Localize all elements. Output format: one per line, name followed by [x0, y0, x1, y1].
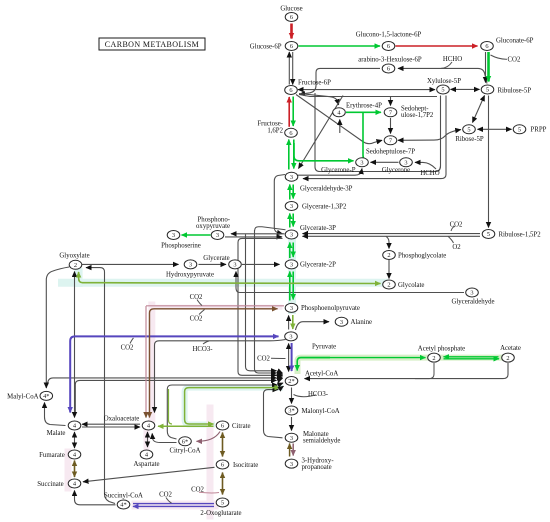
svg-text:CO2: CO2	[450, 222, 463, 229]
wire long vertical A (x245.5)	[246, 234, 277, 370]
svg-text:3: 3	[290, 305, 293, 312]
edge green glycerate3P-2P (down)	[292, 243, 294, 258]
node Glycerate	[229, 260, 242, 269]
wire rubisco line upper to glycerate-3P	[303, 233, 481, 235]
wire CO2 tick pdh	[271, 357, 286, 359]
wire isocitrate to succinate diagonal	[83, 467, 215, 482]
node Phosphoserine	[167, 231, 180, 240]
svg-text:6: 6	[221, 423, 224, 430]
svg-text:CO2: CO2	[191, 486, 204, 493]
edge CO2 tick idh	[199, 491, 219, 494]
wire fan arrow 2	[278, 374, 283, 376]
edge olive malonateSA-3HP (up)	[289, 444, 291, 457]
wire diagonal to glyceraldehyde-3P	[299, 96, 344, 169]
node Sedoheptulose-1,7P2	[384, 108, 397, 117]
node Phosphoglycolate	[383, 251, 396, 260]
wire malyl-CoA loop to malate	[45, 403, 66, 426]
wire glyoxylate to hydroxypyruvate	[82, 263, 179, 265]
edge pink vertical partner	[145, 306, 147, 413]
svg-text:CO2: CO2	[190, 294, 203, 301]
wire fan arrow 3	[278, 376, 283, 379]
svg-text:CARBON METABOLISM: CARBON METABOLISM	[105, 40, 199, 49]
edge black pyruvate-acetylCoA (up)	[288, 344, 290, 372]
wire fan arrow g1	[278, 383, 283, 385]
svg-text:Acetyl-CoA: Acetyl-CoA	[305, 370, 338, 377]
svg-text:Ribulose-5P: Ribulose-5P	[498, 87, 532, 94]
svg-text:3: 3	[290, 262, 293, 269]
node Erythrose-4P	[333, 108, 346, 117]
wire xylulose-5P to ribulose-5P	[451, 88, 480, 90]
wire phosphoglycolate to glycolate	[388, 260, 390, 279]
svg-text:Glucose-6P: Glucose-6P	[250, 43, 282, 50]
svg-text:4*: 4*	[120, 502, 126, 509]
wire alanine link	[296, 322, 330, 330]
node Glyoxylate	[69, 260, 82, 269]
svg-text:6: 6	[387, 66, 390, 73]
svg-text:arabino-3-Hexulose-6P: arabino-3-Hexulose-6P	[358, 56, 422, 63]
svg-text:Acetate: Acetate	[500, 345, 521, 352]
svg-text:Glycerate-2P: Glycerate-2P	[300, 262, 336, 269]
svg-text:Sedoheptulose-7P: Sedoheptulose-7P	[366, 149, 415, 156]
svg-text:HCO3-: HCO3-	[308, 391, 329, 398]
svg-text:6*: 6*	[182, 439, 188, 446]
edge olive citrate-isocitrate	[222, 433, 224, 457]
node Pyruvate	[285, 332, 298, 341]
wire ribose-5P to PRPP	[478, 128, 512, 130]
edge green 13P2-glycerate3P (up)	[289, 214, 291, 228]
wire diagonal F6P to sedoheptulose-7P	[296, 95, 382, 144]
node Sedoheptulose-7P	[384, 136, 397, 145]
node Glycerate-3P	[285, 230, 298, 239]
node Ribulose-5P	[481, 85, 494, 94]
node Malonate semialdehyde	[285, 433, 298, 442]
svg-text:propanoate: propanoate	[302, 464, 332, 471]
svg-text:3: 3	[172, 232, 175, 239]
band pink citrate column	[207, 408, 214, 516]
svg-text:2: 2	[74, 262, 77, 269]
wire fan arrow 4	[278, 378, 283, 380]
wire phosphono-oxypyruvate to glycerate-3P	[225, 236, 282, 238]
wire glyoxylate-malate vertical	[74, 272, 76, 418]
svg-text:Glucono-1,5-lactone-6P: Glucono-1,5-lactone-6P	[356, 31, 422, 38]
node Ribose-5P	[463, 125, 476, 134]
node Citrate	[216, 421, 229, 430]
edge ygreen PEP to pyruvate	[292, 315, 294, 329]
edge pink PEP line	[146, 305, 284, 307]
node Xylulose-5P	[437, 85, 450, 94]
svg-text:Malyl-CoA: Malyl-CoA	[7, 393, 38, 400]
wire glycerate-3P top-left stub	[255, 227, 286, 231]
wire citryl-CoA to acetyl-CoA	[167, 385, 277, 439]
wire gluconate-6P black partner down	[485, 52, 487, 83]
edge CO2 tick pepck lower	[199, 310, 205, 315]
node Hydroxypyruvate	[184, 260, 197, 269]
svg-text:Glycerate: Glycerate	[203, 255, 229, 262]
node Phosphono-oxypyruvate	[211, 231, 224, 240]
svg-text:Glucose: Glucose	[280, 6, 302, 13]
edge black PEP-pyruvate pair up	[288, 316, 290, 330]
wire malate-oxaloacetate upper	[82, 423, 140, 425]
svg-text:3: 3	[404, 160, 407, 167]
svg-text:Glycerone: Glycerone	[382, 167, 410, 174]
svg-text:CO2: CO2	[508, 56, 521, 63]
node Fumarate	[68, 450, 81, 459]
wire ribose-5P west curve to sedoheptulose-7P	[398, 130, 461, 141]
edge green G3P-glycerate13P2 (down)	[292, 185, 294, 199]
wire xylulose-5P loop left leg	[315, 93, 441, 172]
svg-text:6: 6	[221, 462, 224, 469]
svg-text:Glyoxylate: Glyoxylate	[59, 252, 89, 259]
wire acetate down to acetyl-CoA	[305, 363, 509, 379]
node Malate	[68, 421, 81, 430]
wire G3P bypass to glycerate-3P	[274, 175, 285, 234]
wire stub up into erythrose-4P	[339, 120, 341, 134]
edge red fructose-1,6P2 to fructose-6P	[288, 97, 290, 127]
svg-text:5: 5	[441, 87, 444, 94]
svg-text:Glycerone-P: Glycerone-P	[321, 167, 356, 174]
node Alanine	[335, 317, 348, 326]
node PRPP	[513, 125, 526, 134]
edge red gluconolactone to gluconate-6P	[396, 45, 478, 47]
edge green glucose-6P to gluconolactone	[299, 45, 381, 47]
edge brown oxaloacetate to PEP	[150, 309, 278, 413]
svg-text:Alanine: Alanine	[351, 319, 373, 326]
wire malate long horizontal to acetyl-CoA	[75, 380, 276, 414]
svg-text:6: 6	[289, 130, 292, 137]
edge green to glycerone-P	[294, 143, 354, 161]
node Glycerate-2P	[285, 260, 298, 269]
svg-text:Fumarate: Fumarate	[39, 452, 65, 459]
svg-text:CO2: CO2	[190, 316, 203, 323]
node Glycerone	[400, 158, 413, 167]
node Malyl-CoA	[40, 391, 53, 400]
node Citryl-CoA	[179, 437, 192, 446]
svg-text:2: 2	[387, 282, 390, 289]
node Acetyl-CoA	[285, 377, 298, 386]
svg-text:Phosphoenolpyruvate: Phosphoenolpyruvate	[301, 305, 360, 312]
edge brown arrow2 into oxaloacetate	[149, 414, 151, 418]
edge green F16P2-G3P right (arrow down)	[293, 140, 295, 169]
edge green acetylphosphate-acetate (left)	[444, 356, 499, 358]
band cyan acetylCoA-citrate route	[185, 388, 280, 425]
wire sedoheptulose-1,7P2 to sedoheptulose-7P	[390, 118, 392, 134]
svg-text:Malate: Malate	[47, 430, 66, 437]
svg-text:HCHO: HCHO	[443, 56, 462, 63]
wire hydroxypyruvate to glycerate arrow	[199, 263, 227, 265]
svg-text:5: 5	[518, 127, 521, 134]
edge green gluconate-6P to ribulose-5P	[487, 52, 490, 82]
band cyan long horizontal (glycolate route)	[62, 279, 384, 287]
edge green 13P2-glycerate3P (down)	[292, 214, 294, 227]
wire long vertical C (x238)	[238, 238, 283, 375]
svg-text:3: 3	[470, 290, 473, 297]
wire long vertical x104 glyoxylate-succinylCoA	[86, 268, 115, 504]
node Glycolate	[383, 280, 396, 289]
edge green glycerate3P-2P (up)	[289, 243, 291, 259]
title box CARBON METABOLISM	[99, 38, 205, 50]
edge blue 2OG to succinyl-CoA lower	[133, 505, 214, 507]
edge green acetylCoA to acetyl-phosphate	[299, 357, 426, 359]
svg-text:3: 3	[290, 461, 293, 468]
wire ribulose-5P down to ribulose-1,5P2	[488, 96, 490, 228]
wire HCHO2 to glycerone	[415, 162, 436, 169]
band cyan glycerate column	[288, 236, 296, 310]
svg-text:Citryl-CoA: Citryl-CoA	[170, 447, 201, 454]
edge green F16P2-G3P left (arrow up)	[288, 140, 290, 170]
svg-text:3: 3	[189, 262, 192, 269]
wire ribulose-5P to ribose-5P diagonal	[473, 96, 485, 123]
svg-text:2: 2	[506, 355, 509, 362]
edge ygreen long glycolate-glyoxylate	[79, 272, 381, 284]
node Acetyl phosphate	[428, 353, 441, 362]
node Phosphoenolpyruvate	[285, 303, 298, 312]
node Fructose-6P	[285, 86, 298, 95]
wire glyoxylate to malyl-CoA	[46, 267, 69, 388]
band palegreen acetate route	[298, 358, 509, 371]
node Isocitrate	[216, 460, 229, 469]
svg-text:3: 3	[340, 319, 343, 326]
svg-text:4*: 4*	[43, 393, 49, 400]
edge green phosphono-oxypyruvate to phosphoserine	[182, 234, 211, 236]
svg-text:3: 3	[360, 160, 363, 167]
node 3-Hydroxypropanoate	[285, 459, 298, 468]
edge green E4P branch down to glycerone-P	[363, 113, 368, 162]
edge green glycerate2P-PEP (up)	[289, 272, 291, 301]
band pink oxaloacetate column	[148, 305, 155, 419]
svg-text:Ribulose-1,5P2: Ribulose-1,5P2	[499, 231, 542, 238]
wire glucose-6P to fructose-6P (left, arrow up)	[288, 52, 290, 85]
node Succinyl-CoA	[117, 500, 130, 509]
node Glucose	[285, 13, 298, 22]
svg-text:6: 6	[485, 43, 488, 50]
svg-text:Gluconate-6P: Gluconate-6P	[496, 38, 534, 45]
svg-text:3: 3	[290, 232, 293, 239]
node Fructose-1,6P2	[285, 128, 298, 137]
svg-text:Acetyl phosphate: Acetyl phosphate	[418, 345, 465, 352]
svg-text:PRPP: PRPP	[531, 127, 547, 134]
edge maroon citrate to citryl-CoA	[197, 432, 221, 442]
wire xylulose-5P transketolase to G3P	[303, 96, 446, 179]
svg-text:Succinyl-CoA: Succinyl-CoA	[104, 492, 143, 499]
wire glycerone to glycerone-P	[371, 161, 399, 163]
edge blue 2OG to succinyl-CoA upper	[133, 503, 214, 505]
wire acetyl-CoA to malonyl-CoA	[291, 388, 293, 404]
svg-text:6: 6	[290, 43, 293, 50]
edge blue pyruvate to acetyl-CoA	[291, 343, 293, 371]
svg-text:Succinate: Succinate	[37, 481, 63, 488]
svg-text:1,6P2: 1,6P2	[267, 127, 283, 134]
svg-text:3: 3	[289, 334, 292, 341]
wire second top horizontal F6P-X5P	[299, 95, 437, 97]
band pink fumarate-succinate	[65, 452, 72, 488]
edge olive fumarate-succinate	[74, 461, 76, 478]
node Malonyl-CoA	[285, 406, 298, 415]
wire glycerate-3P to phosphono-oxypyruvate	[231, 233, 285, 235]
node Glyceraldehyde-3P	[285, 172, 298, 181]
wire malate-oxaloacetate lower	[82, 426, 140, 428]
wire O2 tick rubisco	[448, 236, 454, 243]
node Glycerone-P	[356, 158, 369, 167]
wire fan arrow g2	[279, 386, 284, 389]
wire HCHO2 curve from xylulose leg	[436, 166, 441, 171]
node Glucose-6P	[285, 42, 298, 51]
node 2-Oxoglutarate	[216, 498, 229, 507]
wire fructose-6P to xylulose-5P row	[298, 89, 435, 91]
svg-text:Fructose-6P: Fructose-6P	[298, 80, 331, 87]
wire malate-fumarate	[74, 432, 76, 448]
wire succinate to succinyl-CoA	[75, 491, 116, 505]
edge ygreen citrate line from fan	[185, 388, 280, 424]
svg-text:3*: 3*	[288, 408, 294, 415]
svg-text:Phosphoglycolate: Phosphoglycolate	[398, 252, 446, 259]
svg-text:O2: O2	[452, 244, 461, 251]
svg-text:3: 3	[290, 203, 293, 210]
node Gluconate-6P	[481, 42, 494, 51]
band pink oaa-aspartate	[144, 430, 150, 450]
svg-text:Hydroxypyruvate: Hydroxypyruvate	[166, 272, 214, 279]
svg-text:6: 6	[290, 14, 293, 21]
svg-text:5: 5	[487, 231, 490, 238]
band pink pep horizontal	[152, 305, 280, 310]
wire oxaloacetate-aspartate	[147, 432, 149, 447]
svg-text:Aspartate: Aspartate	[133, 461, 159, 468]
wire HCO3 tick acc	[294, 395, 317, 397]
wire hexulose-6P to fructose-6P	[300, 68, 381, 94]
svg-text:3: 3	[233, 262, 236, 269]
svg-text:Glycolate: Glycolate	[398, 282, 424, 289]
svg-text:6: 6	[289, 87, 292, 94]
edge green erythrose-4P to sedoheptulose-1,7P2	[346, 111, 381, 113]
svg-text:Isocitrate: Isocitrate	[233, 462, 258, 469]
wire gluconate CO2 tick	[491, 55, 508, 59]
svg-text:Xylulose-5P: Xylulose-5P	[427, 78, 461, 85]
edge blue CO2 tick	[130, 338, 134, 344]
wire acetyl-phosphate down join	[415, 363, 434, 379]
svg-text:2-Oxoglutarate: 2-Oxoglutarate	[200, 510, 241, 517]
svg-text:CO2: CO2	[159, 491, 172, 498]
wire pyruvate carboxylase path	[155, 340, 286, 413]
node arabino-3-Hexulose-6P	[382, 64, 395, 73]
wire fructose-6P corner to erythrose-4P	[299, 94, 339, 105]
svg-text:5: 5	[486, 87, 489, 94]
wire glycerate to glycerate-2P	[242, 263, 280, 265]
wire G3P to glycerone-P (TPI)	[298, 169, 362, 176]
svg-text:semialdehyde: semialdehyde	[303, 437, 340, 444]
wire glucose-6P to fructose-6P (right, arrow down)	[292, 52, 294, 85]
svg-text:Pyruvate: Pyruvate	[312, 344, 336, 351]
svg-text:CO2: CO2	[257, 355, 270, 362]
node Succinate	[68, 479, 81, 488]
svg-text:Malonyl-CoA: Malonyl-CoA	[302, 408, 340, 415]
node Aspartate	[140, 450, 153, 459]
svg-text:6: 6	[387, 43, 390, 50]
wire malonate-SA return line	[264, 390, 283, 438]
edge olive isocitrate-2OG	[222, 473, 224, 495]
svg-text:ulose-1,7P2: ulose-1,7P2	[401, 112, 434, 119]
node Oxaloacetate	[142, 421, 155, 430]
wire citryl-CoA to oxaloacetate	[152, 434, 176, 443]
svg-text:Glycerate-3P: Glycerate-3P	[300, 225, 336, 232]
wire fan arrow 1	[278, 373, 283, 374]
svg-text:CO2: CO2	[121, 345, 134, 352]
wire fan arrow 0	[278, 371, 283, 373]
svg-text:3: 3	[290, 435, 293, 442]
svg-text:3: 3	[290, 174, 293, 181]
svg-text:HCO3-: HCO3-	[192, 346, 213, 353]
edge ygreen vertical x168 partner	[169, 389, 173, 424]
edge green glycerate2P-PEP (down)	[292, 272, 294, 300]
svg-text:Phosphoserine: Phosphoserine	[161, 242, 201, 249]
svg-text:Erythrose-4P: Erythrose-4P	[346, 103, 382, 110]
wire rubisco line lower to glycerate-3P	[303, 235, 481, 237]
edge ygreen oaa-citrate (to OAA)	[158, 425, 214, 427]
edge red glucose to glucose-6P	[290, 24, 293, 39]
edge maroon malonateSA-3HP (down)	[292, 444, 294, 456]
svg-text:oxypyruvate: oxypyruvate	[196, 223, 230, 230]
wire HCO3 tick pyruvate	[203, 341, 209, 344]
edge CO2 tick pepck upper	[197, 300, 202, 306]
svg-text:5: 5	[221, 500, 224, 507]
wire malyl long horizontal to acetyl-CoA	[48, 378, 277, 385]
wire stub into sedoheptulose-1,7P2 top	[390, 97, 392, 106]
wire HCHO tick to hexulose line	[441, 62, 452, 68]
node Glyceraldehyde	[466, 288, 479, 297]
edge CO2 tick 2og	[166, 498, 172, 504]
wire ribulose-5P to hexulose-6P	[398, 68, 487, 83]
svg-text:2: 2	[387, 252, 390, 259]
svg-text:Glycerate-1,3P2: Glycerate-1,3P2	[302, 203, 347, 210]
node Acetate	[502, 353, 515, 362]
svg-text:Ribose-5P: Ribose-5P	[455, 136, 484, 143]
svg-text:2: 2	[432, 355, 435, 362]
wire malonyl-CoA to malonate-SA	[291, 417, 293, 431]
node Ribulose-1,5P2	[482, 230, 495, 239]
edge green acetylphosphate-acetate (right)	[444, 358, 500, 360]
node Glucono-1,5-lactone-6P	[382, 42, 395, 51]
svg-text:Citrate: Citrate	[232, 423, 251, 430]
edge brown arrows into oxaloacetate	[145, 414, 147, 418]
svg-text:3: 3	[216, 232, 219, 239]
wire CO2 tick rubisco	[451, 227, 455, 232]
edge green G3P-glycerate13P2 (up)	[289, 185, 291, 200]
svg-text:Oxaloacetate: Oxaloacetate	[104, 416, 139, 423]
edge blue malate branch to pyruvate	[70, 336, 278, 412]
wire long vertical B (x254.5)	[255, 230, 277, 373]
edge green acetate route into acetyl-CoA	[297, 358, 330, 371]
band cyan glyoxylate corner	[75, 272, 83, 283]
svg-text:Glyceraldehyde: Glyceraldehyde	[451, 298, 494, 305]
svg-text:5: 5	[467, 127, 470, 134]
band pink 2-oxoglutarate row	[136, 501, 214, 510]
wire glyceraldehyde to glycerate	[236, 272, 464, 293]
edge green fructose-6P to fructose-1,6P2	[292, 97, 294, 127]
wire branch to phosphoglycolate	[386, 236, 389, 248]
svg-text:HCHO: HCHO	[420, 170, 439, 177]
svg-text:2*: 2*	[288, 378, 294, 385]
svg-text:Glyceraldehyde-3P: Glyceraldehyde-3P	[300, 185, 353, 192]
node Glycerate-1,3P2	[285, 202, 298, 211]
